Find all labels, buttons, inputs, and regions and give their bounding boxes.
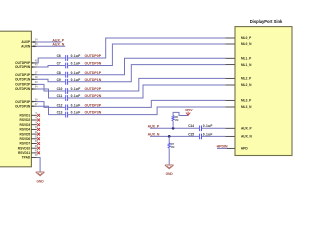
svg-text:RSVD11: RSVD11 (18, 151, 30, 155)
svg-text:C14: C14 (188, 124, 194, 128)
pin RSVD5 (pin 21) of U1 (20, 131, 40, 136)
wire OUTDP1P pin to capacitor C8 (37, 74, 65, 76)
svg-text:ML1_P: ML1_P (241, 56, 252, 60)
svg-text:0.1uF: 0.1uF (71, 94, 81, 98)
pin OUTDP0N (pin 43) of U1 (15, 64, 38, 69)
svg-text:5: 5 (36, 112, 38, 115)
wire C13 to DisplayPort sink OUTDP3N (68, 107, 225, 115)
svg-text:AUXN: AUXN (21, 44, 31, 48)
pin RSVD3 (pin 9) of U1 (20, 121, 40, 126)
svg-text:RSVD2: RSVD2 (20, 118, 31, 122)
wire C10 to DisplayPort sink OUTDP2P (68, 78, 225, 91)
capacitor C9 0.1uF (66, 79, 68, 85)
pin RSVD4 (pin 10) of U1 (20, 126, 40, 131)
wire OUTDP1N pin to capacitor C9 (37, 79, 65, 82)
svg-text:HPD: HPD (241, 147, 248, 151)
pin OUTDP1N (pin 18) of U1 (15, 76, 38, 81)
wire AUXP pin to net label (37, 41, 62, 43)
svg-text:27: 27 (35, 103, 38, 106)
svg-text:1M: 1M (175, 118, 179, 122)
svg-text:OUTDP3N: OUTDP3N (15, 104, 31, 108)
svg-text:18: 18 (35, 76, 38, 79)
wire OUTDP3N pin to capacitor C13 (37, 106, 65, 114)
svg-text:0.1uF: 0.1uF (71, 54, 81, 58)
wire AUX_N net label to capacitor C15 (150, 135, 199, 137)
svg-text:OUTDP1P: OUTDP1P (15, 73, 31, 77)
svg-text:C12: C12 (57, 103, 63, 107)
svg-text:43: 43 (35, 64, 38, 67)
pin stub DisplayPort sink at y=44.0 (225, 43, 235, 45)
pin AUXP (pin 24) of U1 (21, 39, 38, 44)
pin stub DisplayPort sink at y=58.3 (225, 57, 235, 59)
svg-text:C8: C8 (57, 71, 61, 75)
pin stub AUX_N DisplayPort sink (225, 135, 235, 137)
capacitor C15 (200, 134, 202, 140)
svg-text:C11: C11 (57, 94, 63, 98)
svg-text:RSVD7: RSVD7 (20, 142, 31, 146)
svg-text:RSVD5: RSVD5 (20, 132, 31, 136)
capacitor C6 0.1uF (66, 55, 68, 61)
wire C9 to DisplayPort sink OUTDP1N (68, 65, 225, 82)
capacitor C14 (200, 126, 202, 132)
svg-text:OUTDP3P: OUTDP3P (85, 103, 102, 107)
wire C11 to DisplayPort sink OUTDP2N (68, 85, 225, 98)
svg-text:GND: GND (37, 180, 45, 184)
power symbol 3P3V (185, 108, 194, 116)
svg-text:0.1uF: 0.1uF (203, 132, 213, 136)
svg-text:0.1uF: 0.1uF (71, 71, 81, 75)
svg-text:RSVD10: RSVD10 (18, 146, 31, 150)
svg-text:9: 9 (36, 121, 38, 124)
pin OUTDP1P (pin 17) of U1 (15, 71, 38, 76)
svg-text:OUTDP2N: OUTDP2N (15, 87, 31, 91)
wire OUTDP2N pin to capacitor C11 (37, 89, 65, 98)
connector J1 DisplayPort Sink body (235, 27, 292, 156)
pin stub DisplayPort sink at y=64.6 (225, 64, 235, 66)
svg-text:AUX_P: AUX_P (241, 126, 253, 130)
svg-text:GND: GND (166, 172, 174, 176)
wire C15 to DisplayPort sink AUX_N (202, 135, 225, 137)
svg-text:OUTDP0N: OUTDP0N (15, 65, 31, 69)
svg-text:AUX_N: AUX_N (52, 43, 64, 47)
svg-text:ML1_N: ML1_N (241, 63, 252, 67)
svg-text:24: 24 (35, 39, 38, 42)
capacitor C11 0.1uF (66, 95, 68, 101)
svg-text:33: 33 (35, 81, 38, 84)
junction node AUX_N / R7 (168, 135, 171, 138)
pin RSVD2 (pin 6) of U1 (20, 117, 40, 122)
pin OUTDP3N (pin 27) of U1 (15, 103, 38, 108)
svg-text:DisplayPort Sink: DisplayPort Sink (250, 19, 283, 24)
pin OUTDP2P (pin 33) of U1 (15, 81, 38, 86)
capacitor C7 0.1uF (66, 63, 68, 69)
pin stub DisplayPort sink at y=38.0 (225, 37, 235, 39)
pin RSVD7 (pin 30) of U1 (20, 140, 40, 145)
pin OUTDP2N (pin 34) of U1 (15, 86, 38, 91)
svg-text:RSVD6: RSVD6 (20, 137, 31, 141)
svg-text:C7: C7 (57, 62, 61, 66)
wire C8 to DisplayPort sink OUTDP1P (68, 58, 225, 74)
svg-text:42: 42 (35, 60, 38, 63)
pin RSVD1 (pin 5) of U1 (20, 112, 40, 117)
svg-text:RSVD4: RSVD4 (20, 128, 31, 132)
svg-text:3P3V: 3P3V (185, 108, 194, 112)
pin stub DisplayPort sink at y=107.0 (225, 106, 235, 108)
svg-text:OUTDP2P: OUTDP2P (15, 83, 31, 87)
svg-text:0.1uF: 0.1uF (71, 62, 81, 66)
svg-text:OUTDP3P: OUTDP3P (15, 100, 31, 104)
wire C7 to DisplayPort sink OUTDP0N (68, 44, 225, 66)
svg-text:AUX_N: AUX_N (241, 135, 253, 139)
svg-text:OUTDP1P: OUTDP1P (85, 71, 102, 75)
svg-text:0.1uF: 0.1uF (71, 103, 81, 107)
capacitor C8 0.1uF (66, 72, 68, 78)
pin RSVD11 (pin 40) of U1 (18, 150, 40, 155)
pin stub AUX_P DisplayPort sink (225, 127, 235, 129)
svg-text:OUTDP1N: OUTDP1N (85, 78, 102, 82)
pin TPAD (pin 41) of U1 (22, 154, 38, 159)
svg-text:ML3_P: ML3_P (241, 99, 252, 103)
svg-text:C15: C15 (188, 132, 194, 136)
svg-text:OUTDP0N: OUTDP0N (85, 62, 102, 66)
pin RSVD6 (pin 22) of U1 (20, 136, 40, 141)
wire TPAD to GND (37, 158, 40, 173)
resistor R7 1M pull-down (168, 136, 175, 149)
wire OUTDP3P pin to capacitor C12 (37, 102, 65, 108)
svg-text:0.1uF: 0.1uF (71, 87, 81, 91)
wire AUX_P net label to capacitor C14 (150, 127, 199, 129)
pin stub HPD DisplayPort sink (227, 147, 235, 149)
svg-text:41: 41 (35, 154, 38, 157)
svg-text:C6: C6 (57, 54, 61, 58)
svg-text:1M: 1M (171, 145, 175, 149)
svg-text:RSVD1: RSVD1 (20, 113, 31, 117)
capacitor C12 0.1uF (66, 105, 68, 111)
pin stub DisplayPort sink at y=85.0 (225, 84, 235, 86)
svg-text:OUTDP2P: OUTDP2P (85, 87, 102, 91)
svg-text:0.1uF: 0.1uF (71, 78, 81, 82)
wire C6 to DisplayPort sink OUTDP0P (68, 38, 225, 58)
svg-text:0.1uF: 0.1uF (203, 124, 213, 128)
svg-text:ML3_N: ML3_N (241, 105, 252, 109)
svg-text:RSVD3: RSVD3 (20, 123, 31, 127)
pin RSVD10 (pin 38) of U1 (18, 145, 40, 150)
wire AUXN pin to net label (37, 45, 65, 47)
svg-text:C9: C9 (57, 78, 61, 82)
svg-text:34: 34 (35, 86, 38, 89)
wire R7 to GND (168, 148, 170, 165)
pin OUTDP0P (pin 42) of U1 (15, 60, 38, 65)
wire OUTDP0P pin to capacitor C6 (37, 58, 65, 63)
pin AUXN (pin 23) of U1 (21, 43, 38, 48)
ground symbol GND (below TPAD) (36, 172, 45, 184)
svg-text:OUTDP0P: OUTDP0P (85, 54, 102, 58)
svg-text:OUTDP3N: OUTDP3N (85, 111, 102, 115)
svg-text:26: 26 (35, 98, 38, 101)
capacitor C13 0.1uF (66, 112, 68, 118)
wire HPDIN to HPD pin (217, 147, 227, 149)
wire OUTDP2P pin to capacitor C10 (37, 84, 65, 91)
svg-text:23: 23 (35, 43, 38, 46)
svg-text:OUTDP1N: OUTDP1N (15, 77, 31, 81)
svg-text:ML2_P: ML2_P (241, 77, 252, 81)
svg-text:C10: C10 (57, 87, 63, 91)
wire OUTDP0N pin to capacitor C7 (37, 66, 65, 68)
svg-text:TPAD: TPAD (22, 156, 31, 160)
svg-text:ML2_N: ML2_N (241, 83, 252, 87)
wire C14 to DisplayPort sink AUX_P (202, 127, 225, 129)
wire C12 to DisplayPort sink OUTDP3P (68, 100, 225, 107)
wire R6 to 3P3V power (173, 112, 188, 115)
pin stub DisplayPort sink at y=100.4 (225, 99, 235, 101)
capacitor C10 0.1uF (66, 88, 68, 94)
ground symbol GND (below R7) (165, 165, 174, 176)
resistor R6 1M pull-up (172, 115, 179, 128)
svg-text:ML0_P: ML0_P (241, 36, 252, 40)
IC U1 left (partially cut off) body (0, 31, 31, 167)
svg-text:OUTDP2N: OUTDP2N (85, 94, 102, 98)
svg-text:C13: C13 (57, 111, 63, 115)
junction node AUX_P / R6 (172, 127, 175, 130)
pin stub DisplayPort sink at y=78.4 (225, 77, 235, 79)
svg-text:0.1uF: 0.1uF (71, 111, 81, 115)
pin OUTDP3P (pin 26) of U1 (15, 98, 38, 103)
svg-text:17: 17 (35, 71, 38, 74)
svg-text:6: 6 (36, 117, 38, 120)
svg-text:ML0_N: ML0_N (241, 42, 252, 46)
